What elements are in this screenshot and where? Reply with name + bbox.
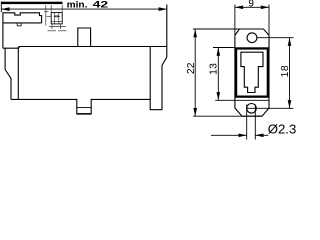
svg-text:Ø2.3: Ø2.3 xyxy=(268,122,297,137)
svg-text:13: 13 xyxy=(209,63,220,75)
svg-text:22: 22 xyxy=(186,62,197,74)
svg-text:min.: min. xyxy=(67,0,88,10)
svg-text:42: 42 xyxy=(93,0,109,10)
svg-text:18: 18 xyxy=(280,65,291,77)
svg-text:9: 9 xyxy=(248,0,254,10)
